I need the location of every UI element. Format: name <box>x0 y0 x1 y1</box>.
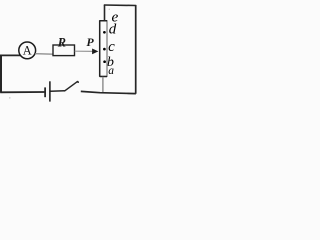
wire: faint stub from bar bottom down to bottom bus <box>102 77 104 93</box>
wire: left vertical from ammeter lead down to bottom bus <box>0 55 2 93</box>
svg-text:d: d <box>109 21 117 37</box>
wire: left horizontal into ammeter <box>0 54 21 56</box>
wire: bottom bus right segment from switch to right bus <box>81 91 136 93</box>
wire: resistor R to slider arrow (faint) <box>75 50 93 52</box>
wire: battery to switch post <box>51 90 65 93</box>
ammeter A1 circle <box>19 42 36 59</box>
tapped resistor bar left edge (darker) <box>100 20 107 76</box>
svg-text:A: A <box>23 44 32 58</box>
tap dot at level c <box>103 48 106 51</box>
wire: stub from top bus down to bar top <box>104 5 106 21</box>
wire: top bus <box>104 4 136 7</box>
battery B1 positive plate (long) <box>49 81 51 101</box>
svg-text:c: c <box>108 39 115 55</box>
wire: ammeter to resistor R (faint) <box>35 53 53 56</box>
svg-text:R: R <box>57 36 66 50</box>
resistor R box <box>53 45 75 56</box>
wire: right vertical bus <box>135 5 137 94</box>
speck (scan artifact) below bottom bus <box>9 97 10 98</box>
battery B1 negative plate (short) <box>44 87 46 97</box>
tap dot at level b <box>103 60 106 63</box>
speck (scan artifact) near bar top <box>109 9 110 10</box>
svg-text:a: a <box>108 65 114 77</box>
switch S1 lever (open) <box>64 82 78 92</box>
slider arrow P head pointing at tap bar <box>92 49 98 55</box>
tapped resistor bar (vertical box) <box>100 21 107 77</box>
svg-text:P: P <box>86 35 94 49</box>
wire: bottom bus left segment to battery <box>0 91 44 93</box>
tap dot at level d <box>103 31 106 34</box>
